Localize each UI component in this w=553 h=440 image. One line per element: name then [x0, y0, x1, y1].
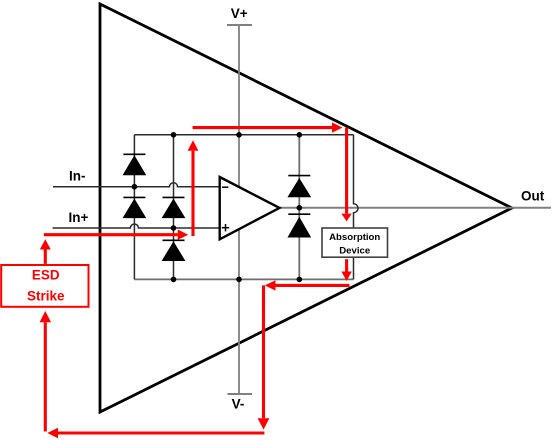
svg-text:ESD: ESD: [32, 268, 60, 283]
svg-text:In+: In+: [69, 210, 89, 225]
svg-text:Device: Device: [339, 245, 370, 256]
svg-text:Out: Out: [521, 189, 545, 204]
svg-text:Absorption: Absorption: [329, 232, 380, 243]
svg-text:V-: V-: [232, 397, 245, 412]
svg-text:In-: In-: [69, 168, 86, 183]
svg-text:Strike: Strike: [27, 289, 65, 304]
svg-text:V+: V+: [231, 6, 248, 21]
